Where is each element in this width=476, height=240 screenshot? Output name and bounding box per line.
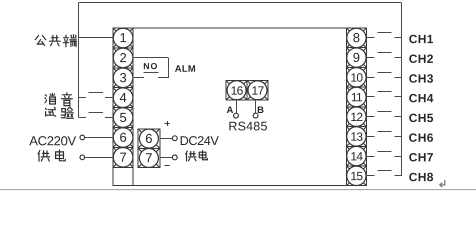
channel CH8 contact from terminal 15 [366,175,374,177]
wire: terminal 16 to A dot [236,100,238,113]
terminal dot DC - [172,155,177,160]
switch S2 test contact to terminal 5 [79,117,86,119]
terminal 3 (left strip) [113,68,133,88]
label 公共端 (common terminal) [35,36,46,46]
wire: common bus top run [79,2,401,4]
channel CH6 contact from terminal 13 [366,136,374,138]
bottom rule [0,189,476,191]
label 供电 (power supply, AC) [38,150,50,161]
terminal dot: AC neutral [80,155,85,160]
switch S1 mute contact to terminal 4 [79,97,86,99]
terminal 17 (RS485 B) [247,81,268,100]
terminal 7 (DC24V -) [138,148,160,167]
terminal 6 (left strip) [113,128,133,148]
channel CH3 contact from terminal 10 [366,77,374,79]
channel CH1 contact from terminal 8 [366,37,374,39]
svg-text:3: 3 [119,70,126,85]
svg-text:B: B [257,105,264,116]
svg-text:12: 12 [350,110,363,124]
return mark (document cursor) [440,180,445,187]
svg-text:8: 8 [353,30,360,45]
svg-text:CH5: CH5 [409,111,434,125]
terminal 1 (left strip) [113,28,133,48]
svg-text:CH7: CH7 [409,150,434,164]
terminal 15 (right strip) [347,166,367,186]
terminal 12 (right strip) [347,107,367,127]
relay contact NO (ALM) with terminal 3 [133,77,144,79]
terminal dot A [234,113,239,118]
svg-text:6: 6 [145,131,152,146]
left strip empty bottom cell [113,167,133,185]
svg-text:CH6: CH6 [409,131,434,145]
svg-text:6: 6 [119,130,126,145]
wire: left common bus (vertical) [78,3,80,118]
wire: AC line to terminal 6 [85,137,113,139]
terminal 9 (right strip) [347,48,367,68]
svg-text:17: 17 [252,84,265,98]
svg-text:7: 7 [145,150,152,165]
terminal 13 (right strip) [347,127,367,147]
svg-text:15: 15 [350,169,363,183]
terminal dot B [253,113,258,118]
terminal 16 (RS485 A) [226,81,247,100]
wire: DC24V - to dot [160,157,173,159]
wire: common label to terminal 1 [79,37,113,39]
svg-text:16: 16 [231,84,244,98]
wire: channel common bus (right vertical) [401,3,403,176]
label + polarity [165,123,170,125]
svg-text:10: 10 [350,71,363,85]
svg-text:AC220V: AC220V [29,133,76,148]
channel CH5 contact from terminal 12 [366,116,374,118]
svg-text:9: 9 [353,50,360,65]
wire: AC neutral to terminal 7 [85,157,113,159]
svg-text:2: 2 [119,50,126,65]
svg-text:CH4: CH4 [409,91,434,105]
wire: ALM bracket right side [168,58,170,78]
svg-text:11: 11 [351,90,363,104]
svg-text:CH3: CH3 [409,72,434,86]
wire: DC24V + to dot [160,138,173,140]
label 供电 (power supply, DC) [186,151,196,161]
terminal 7 (left strip) [113,147,133,167]
terminal 6 (DC24V +) [138,129,160,148]
terminal 11 (right strip) [347,87,367,107]
svg-text:RS485: RS485 [228,119,267,133]
svg-text:4: 4 [119,90,126,105]
svg-text:ALM: ALM [175,63,196,74]
enclosure: instrument outline rectangle [113,28,347,186]
channel CH4 contact from terminal 11 [366,96,374,98]
terminal 10 (right strip) [347,67,367,87]
channel CH2 contact from terminal 9 [366,57,374,59]
terminal 5 (left strip) [113,108,133,128]
channel CH7 contact from terminal 14 [366,156,374,158]
svg-text:A: A [227,105,234,116]
terminal 8 (right strip) [347,28,367,48]
label 试验 (test) [45,107,55,116]
svg-text:14: 14 [350,149,363,163]
label - polarity [165,165,170,167]
terminal dot: AC line [80,135,85,140]
svg-text:CH8: CH8 [409,170,434,184]
svg-text:13: 13 [350,130,363,144]
svg-text:5: 5 [119,110,126,125]
svg-text:CH1: CH1 [409,32,434,46]
svg-text:7: 7 [119,150,126,165]
terminal dot DC + [172,136,177,141]
terminal 14 (right strip) [347,146,367,166]
svg-text:1: 1 [119,30,126,45]
svg-text:CH2: CH2 [409,52,434,66]
label 消音 (mute) [45,93,56,104]
terminal 4 (left strip) [113,88,133,108]
svg-text:NO: NO [143,61,158,71]
wire: terminal 17 to B dot [255,100,257,113]
wire: terminal 2 to ALM bracket top [133,57,169,59]
terminal 2 (left strip) [113,48,133,68]
svg-text:DC24V: DC24V [180,134,220,148]
